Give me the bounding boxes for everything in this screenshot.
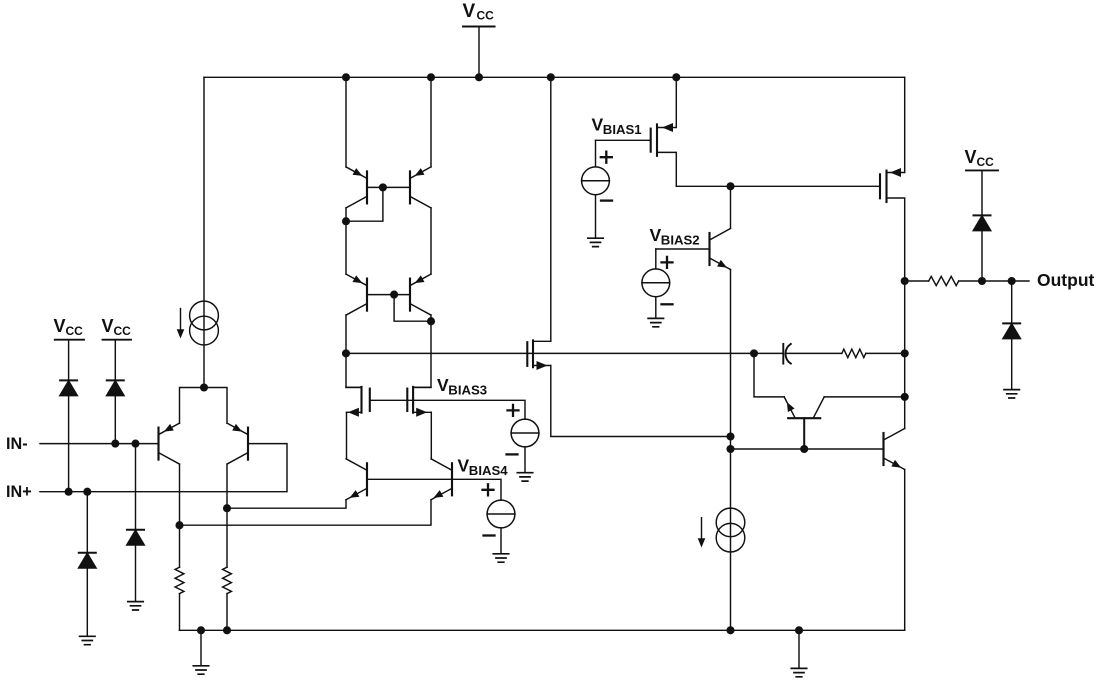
wire VBIAS3 gate line <box>370 400 525 419</box>
wire base line y449 <box>731 448 884 450</box>
Vcc left 2 supply <box>102 316 132 340</box>
wire x346 rail to upper mirror <box>345 77 347 167</box>
wire Q2 collector down <box>226 464 228 567</box>
node IN+ junctions <box>65 488 73 496</box>
wire Q7 emitter to Q2 node <box>227 500 346 508</box>
svg-text:CC: CC <box>114 324 132 338</box>
Vcc left 1 supply <box>54 316 85 340</box>
svg-text:BIAS2: BIAS2 <box>661 233 700 248</box>
current source VBIAS1 <box>582 167 610 195</box>
resistor R2 <box>223 567 232 593</box>
svg-text:V: V <box>102 316 114 336</box>
svg-text:V: V <box>458 456 470 476</box>
svg-text:IN-: IN- <box>6 435 28 453</box>
wire Q1 collector down <box>179 464 181 567</box>
current source VBIAS4 <box>487 500 515 528</box>
ground under D3 <box>128 602 143 610</box>
wire Q3-Q4 base tie <box>367 186 410 188</box>
ground under D4 <box>80 636 95 644</box>
wire IN- down to D3 <box>135 444 137 529</box>
wire base-collector tie of Q3 <box>346 187 383 221</box>
wire VBIAS2 source drop <box>655 249 657 269</box>
wire R2 to rail <box>226 594 228 631</box>
transistor Q1 input PNP left <box>159 423 180 464</box>
svg-text:CC: CC <box>477 9 495 23</box>
transistor Q8 NPN right <box>431 459 452 501</box>
label minus VBIAS4 <box>484 534 495 536</box>
wire Vcc right drop <box>981 170 983 214</box>
ground VBIAS4 <box>493 554 508 562</box>
wire R1 to rail <box>179 594 181 631</box>
transistor Q4 upper mirror PNP right <box>410 167 431 208</box>
transistor Q9 NPN VBIAS2 <box>710 229 731 271</box>
Vcc top supply <box>463 1 495 77</box>
wire VBIAS2 base line <box>656 248 710 250</box>
label plus VBIAS4 <box>483 484 494 495</box>
resistor R1 <box>175 567 184 593</box>
label VBIAS1 <box>592 115 642 138</box>
transistor Q3 upper mirror PNP left <box>346 167 367 208</box>
node base tie dot <box>379 183 387 191</box>
node tail split <box>200 383 208 391</box>
ground bottom left <box>193 666 208 674</box>
wire output row left <box>905 280 929 282</box>
wire VBIAS2 csrc to ground <box>655 297 657 319</box>
wire Vcc1 drop <box>68 340 70 379</box>
node IN- junctions <box>111 440 119 448</box>
node x346 gate line tap <box>342 349 350 357</box>
node gate line dot <box>726 182 734 190</box>
node Q5Q6 base dot <box>390 291 398 299</box>
transistor M4 PMOS VBIAS1 <box>651 77 677 186</box>
wire M2 source drop <box>430 412 432 459</box>
wire VBIAS1 gate line <box>596 139 651 141</box>
wire Q5-Q6 base tie <box>367 294 410 296</box>
diode D5 output to Vcc <box>974 215 991 230</box>
current source VBIAS2 <box>642 269 670 297</box>
node Q1 collector tap <box>175 521 183 529</box>
wire left tall drop from rail <box>203 77 205 387</box>
label VBIAS4 <box>458 456 509 479</box>
wire x346 middle segment <box>345 208 347 274</box>
wire tail harness <box>180 388 228 424</box>
wire Vcc2 drop <box>114 340 116 379</box>
wire top rail <box>204 76 905 78</box>
node Q2 collector tap <box>223 504 231 512</box>
diode D3 (gnd to IN-) <box>127 530 144 545</box>
svg-text:Output: Output <box>1037 270 1095 290</box>
wire D5 to output node <box>981 231 983 281</box>
transistor M2 NMOS cascode right <box>407 387 431 417</box>
svg-text:V: V <box>437 375 449 395</box>
wire rail drop to M3 drain <box>550 77 552 341</box>
node comp tap dot <box>750 349 758 357</box>
wire bottom rail <box>180 629 905 631</box>
diode D1 (Vcc1 to IN+) <box>60 380 77 395</box>
label minus VBIAS1 <box>601 199 612 201</box>
capacitor C1 left plate <box>782 344 784 364</box>
wire IN+ down to D4 <box>86 492 88 552</box>
diode D6 gnd to output <box>1003 323 1020 338</box>
wire R4 to output column <box>866 352 905 354</box>
wire output down to D6 <box>1011 281 1013 322</box>
wire Q9 collector up <box>730 186 732 228</box>
wire main gate line y353 <box>346 352 783 354</box>
current source I1 tail (double circle) <box>177 301 219 345</box>
wire gate line to output PMOS <box>676 185 880 187</box>
node Q10 base dot <box>800 445 808 453</box>
node rail junction dots <box>342 73 680 81</box>
svg-text:BIAS4: BIAS4 <box>469 463 509 478</box>
ground VBIAS3 <box>517 473 532 481</box>
svg-text:V: V <box>54 316 66 336</box>
wire comp tap down to Q10 emitter <box>754 353 784 397</box>
wire x431 lower segment to NMOS drain <box>413 315 431 387</box>
wire Q8 emitter to Q1 node <box>180 500 432 525</box>
transistor Q2 input PNP right <box>227 423 248 464</box>
label VBIAS3 <box>437 375 487 398</box>
svg-text:IN+: IN+ <box>6 483 32 501</box>
node x730 lower dot <box>726 445 734 453</box>
label plus VBIAS3 <box>508 405 519 416</box>
label VBIAS2 <box>650 225 700 248</box>
current source I2 (double circle) <box>698 508 745 552</box>
label minus VBIAS2 <box>662 303 673 305</box>
wire M3 source to x730 node <box>551 366 731 437</box>
label plus VBIAS2 <box>662 257 673 268</box>
node Q6 collector dot <box>427 317 435 325</box>
label minus VBIAS3 <box>507 453 518 455</box>
node x730 upper dot <box>726 432 734 440</box>
wire cap to resistor <box>787 352 842 354</box>
wire VBIAS4 to ground <box>500 528 502 554</box>
ground VBIAS2 <box>648 318 663 326</box>
wire output row right <box>959 280 1029 282</box>
IN+ input wire <box>40 444 287 492</box>
wire x431 rail to upper mirror <box>430 77 432 167</box>
resistor R4 comp <box>842 349 866 357</box>
capacitor C1 curved plate <box>785 344 790 364</box>
transistor M3 second stage NMOS <box>527 340 551 370</box>
wire base-collector tie of Q6 <box>394 295 431 322</box>
ground D6 <box>1004 390 1019 398</box>
transistor Q6 lower mirror PNP right <box>410 274 431 315</box>
wire VBIAS3 to ground <box>524 447 526 473</box>
transistor Q7 NPN left <box>346 459 367 501</box>
wire D4 to ground <box>86 568 88 636</box>
wire D1 to IN+ <box>68 395 70 491</box>
resistor R3 output <box>929 276 959 285</box>
transistor Q11 NPN output <box>884 429 905 471</box>
svg-text:V: V <box>463 1 476 22</box>
node output dots <box>978 277 986 285</box>
diode D2 (Vcc2 to IN-) <box>107 380 124 395</box>
wire D2 to IN- <box>114 395 116 443</box>
svg-text:BIAS1: BIAS1 <box>603 122 642 137</box>
svg-text:BIAS3: BIAS3 <box>448 383 487 398</box>
wire Q7-Q8 base line and VBIAS4 <box>367 479 501 500</box>
transistor M1 NMOS cascode left <box>346 387 370 417</box>
svg-text:V: V <box>650 225 662 245</box>
transistor Q5 lower mirror PNP left <box>346 274 367 315</box>
wire D6 to ground <box>1011 339 1013 390</box>
node bottom rail dots <box>197 626 803 634</box>
wire VBIAS1 csrc to ground <box>595 195 597 238</box>
wire VBIAS1 source drop <box>595 140 597 167</box>
wire Q9 emitter down x730 <box>730 270 732 631</box>
ground VBIAS1 <box>588 238 603 246</box>
current source VBIAS3 <box>511 419 539 447</box>
diode D4 (gnd to IN+) <box>79 553 96 568</box>
wire Q11 emitter down to rail <box>904 470 906 631</box>
wire x346 lower segment to NMOS drain <box>346 315 362 387</box>
Vcc right supply <box>965 147 999 170</box>
svg-text:CC: CC <box>66 324 84 338</box>
node Q3 collector dot <box>342 217 350 225</box>
svg-text:CC: CC <box>977 155 995 169</box>
label plus VBIAS1 <box>601 152 612 163</box>
wire Q10 collector to output column <box>824 396 905 398</box>
wire x431 middle segment <box>430 208 432 274</box>
wire ground stem left <box>200 630 202 665</box>
transistor Q10 PNP rotated <box>784 397 825 449</box>
ground bottom right <box>791 668 806 676</box>
transistor M5 output PMOS <box>880 77 905 428</box>
svg-text:V: V <box>592 115 604 135</box>
IN- input wire <box>40 443 159 445</box>
wire M1 source drop <box>346 412 348 459</box>
svg-text:V: V <box>965 147 977 167</box>
wire D3 to ground <box>135 545 137 602</box>
wire ground stem right <box>798 630 800 668</box>
node output column dots <box>901 277 909 401</box>
